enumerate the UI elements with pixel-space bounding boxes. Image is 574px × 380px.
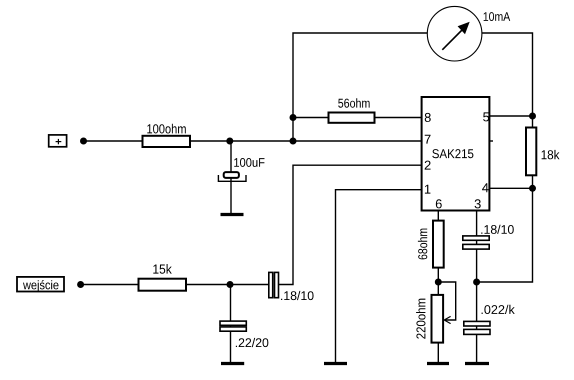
pin 5 xyxy=(483,112,489,121)
label 100uF xyxy=(234,158,264,167)
node 68ohm 220ohm xyxy=(435,279,442,286)
pin 3 xyxy=(475,199,481,208)
label 100ohm xyxy=(147,124,185,134)
capacitor .022/k xyxy=(464,321,490,334)
ground 100uF xyxy=(221,213,244,216)
label 10mA xyxy=(484,12,511,21)
node caps right xyxy=(473,279,480,286)
resistor 18k xyxy=(526,128,536,176)
wire supply rail from + terminal to pin 7 xyxy=(86,140,421,142)
pin 7 xyxy=(425,135,431,144)
pin 1 xyxy=(425,185,431,194)
resistor 15k xyxy=(139,279,187,291)
terminal wejscie xyxy=(17,277,64,292)
pin 2 xyxy=(425,161,431,170)
wire pin 6 branch down through 68ohm and 220ohm to ground xyxy=(437,211,439,363)
wire .22/20 branch xyxy=(230,285,232,363)
capacitor 100uF electrolytic xyxy=(218,172,246,181)
meter 10mA xyxy=(427,6,482,61)
wire pin 2 to coupling cap xyxy=(279,165,422,284)
node pin4 18k xyxy=(529,185,536,192)
capacitor .18/10 coupling (vertical plates) xyxy=(269,272,279,297)
node rail A supply xyxy=(290,138,297,145)
resistor 100ohm xyxy=(143,136,191,147)
label .18/10 right xyxy=(481,225,514,234)
node 100uF tap xyxy=(226,138,233,145)
wire potentiometer wiper xyxy=(438,282,455,324)
label .18/10 left xyxy=(281,291,314,300)
capacitor .22/20 xyxy=(220,321,246,331)
ground 220ohm xyxy=(427,362,449,365)
node supply terminal xyxy=(80,138,87,145)
wire vertical rail to meter left xyxy=(293,33,428,141)
label SAK215 xyxy=(432,149,473,158)
node input terminal xyxy=(77,281,84,288)
pin 8 xyxy=(425,113,431,122)
pin 4 xyxy=(482,183,489,192)
label .22/20 xyxy=(236,338,269,347)
wire 56ohm branch pin 8 xyxy=(293,117,421,119)
label .022/k xyxy=(482,305,515,314)
wire pin 1 to ground xyxy=(336,190,422,363)
label 18k xyxy=(542,150,560,159)
ground pin1 xyxy=(324,362,347,365)
label 68ohm rotated xyxy=(418,229,427,260)
wire pin 5 to right rail xyxy=(490,115,533,117)
node rail A 56ohm xyxy=(290,114,297,121)
label 56ohm xyxy=(338,98,369,107)
wire pin 4 to right rail xyxy=(490,187,533,189)
wire input from wejscie to cap xyxy=(84,284,269,286)
resistor 56ohm xyxy=(329,113,375,123)
pin 6 xyxy=(436,199,442,208)
wire 100uF branch xyxy=(230,141,232,214)
ground .022/k xyxy=(465,362,489,365)
potentiometer 220ohm xyxy=(432,295,444,343)
node pin5 18k xyxy=(529,113,536,120)
label 15k xyxy=(153,264,172,274)
IC SAK215 xyxy=(422,97,490,211)
node 15k tap xyxy=(227,281,234,288)
label 220ohm rotated xyxy=(416,299,425,339)
capacitor .18/10 right xyxy=(463,236,489,249)
IC right edge tick xyxy=(490,140,493,142)
resistor 68ohm xyxy=(433,221,444,268)
terminal + xyxy=(49,135,67,147)
wire pin 3 branch down through caps to ground xyxy=(476,211,478,363)
wire meter right to right rail down xyxy=(477,33,533,282)
ground .22/20 xyxy=(221,362,244,365)
